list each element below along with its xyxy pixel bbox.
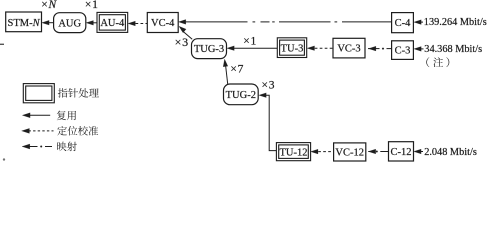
box C-4 (392, 13, 414, 33)
svg-text:TUG-3: TUG-3 (194, 44, 224, 55)
svg-text:TU-3: TU-3 (281, 43, 304, 54)
legend dashed arrow (align) (22, 128, 54, 133)
svg-text:×3: ×3 (262, 79, 276, 91)
box VC-3 (333, 38, 365, 58)
wire VC-4 to AU-4 (align, dashed) (128, 21, 147, 26)
wire TUG-3 to VC-4 (multiplex, diagonal) (179, 26, 192, 39)
svg-text:×1: ×1 (85, 0, 99, 11)
box TUG-3 (192, 39, 227, 59)
svg-text:AU-4: AU-4 (100, 18, 125, 29)
svg-text:VC-12: VC-12 (335, 147, 364, 158)
wire C-4 to VC-4 (map, dash-dot long line) (178, 20, 391, 25)
box STM-N (6, 12, 42, 32)
wire TU-12 to TUG-2 (multiplex, L-shaped) (259, 93, 277, 151)
wire TU-3 to TUG-3 (multiplex) (227, 46, 277, 51)
svg-text:AUG: AUG (58, 18, 81, 29)
box TUG-2 (224, 84, 259, 105)
svg-text:34.368 Mbit/s: 34.368 Mbit/s (424, 44, 482, 55)
box VC-4 (147, 13, 178, 33)
wire VC-3 to TU-3 (align, dashed) (307, 46, 333, 51)
box AUG (54, 13, 86, 33)
svg-text:VC-4: VC-4 (151, 18, 175, 29)
wire TUG-2 to TUG-3 (multiplex, diagonal) (223, 59, 228, 84)
svg-text:C-3: C-3 (395, 45, 411, 56)
svg-text:STM-N: STM-N (8, 18, 41, 29)
svg-text:C-4: C-4 (395, 18, 412, 29)
wire 2.048 Mbit/s to C-12 (414, 149, 423, 154)
svg-text:×7: ×7 (230, 64, 244, 76)
legend solid arrow (multiplex) (22, 113, 50, 118)
legend label pointer processing (58, 88, 99, 98)
svg-text:VC-3: VC-3 (337, 44, 360, 55)
legend label map (57, 142, 77, 152)
scan speck bottom left (3, 159, 5, 161)
wire AU-4 to AUG (multiplex) (86, 20, 97, 25)
svg-text:×3: ×3 (175, 35, 189, 49)
wire 34.368 Mbit/s to C-3 (414, 47, 424, 52)
box AU-4 (pointer processing, double border) (97, 12, 128, 32)
legend label align (57, 126, 98, 136)
legend pointer-processing box (double border) (23, 84, 54, 103)
wire C-3 to VC-3 (map, dash-dot) (368, 46, 392, 51)
wire C-12 to VC-12 (map, dash-dot) (368, 149, 388, 154)
box TU-3 (pointer processing, double border) (277, 38, 306, 58)
svg-text:C-12: C-12 (391, 147, 412, 158)
svg-text:TU-12: TU-12 (280, 147, 308, 158)
svg-text:139.264 Mbit/s: 139.264 Mbit/s (424, 17, 487, 28)
box TU-12 (pointer processing, double border) (276, 143, 310, 161)
svg-text:×1: ×1 (243, 36, 257, 48)
wire VC-12 to TU-12 (align, dashed) (311, 149, 334, 154)
scan speck left edge (0, 43, 4, 45)
svg-text:TUG-2: TUG-2 (226, 90, 256, 101)
wire AUG to STM-N (multiplex) (42, 20, 54, 25)
svg-text:×N: ×N (41, 0, 57, 11)
box VC-12 (334, 143, 366, 161)
wire 139.264 Mbit/s to C-4 (414, 20, 423, 25)
svg-text:2.048 Mbit/s: 2.048 Mbit/s (424, 147, 477, 158)
box C-12 (389, 142, 414, 161)
legend dash-dot arrow (map) (22, 144, 52, 149)
label (note) (426, 57, 449, 67)
box C-3 (392, 41, 414, 60)
legend label multiplex (57, 111, 76, 121)
